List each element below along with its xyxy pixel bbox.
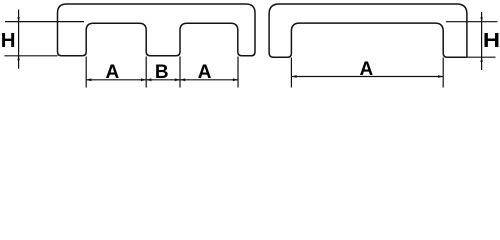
left extension line 1: [85, 57, 87, 88]
svg-text:H: H: [483, 28, 500, 51]
right extension line 1: [290, 58, 292, 88]
right H top arrowhead: [480, 17, 483, 22]
arrow right at ext2: [141, 78, 146, 81]
left H bottom arrowhead: [17, 56, 20, 61]
left H top arrowhead: [17, 17, 20, 22]
left extension line 4: [237, 57, 239, 88]
left view handle outline: [58, 4, 256, 56]
right A dimension line: [291, 76, 443, 78]
svg-text:A: A: [106, 62, 120, 83]
right H bottom arrowhead: [480, 57, 483, 62]
arrow right at ext4: [233, 78, 238, 81]
right H top reference line: [446, 21, 498, 23]
svg-text:A: A: [198, 62, 212, 83]
left H top reference line: [5, 21, 84, 23]
right H bottom reference line: [467, 56, 496, 58]
left extension line 2: [145, 57, 147, 88]
arrow left at ext3: [180, 78, 185, 81]
left H bottom reference line: [5, 55, 58, 57]
arrow right at right ext2: [438, 75, 443, 78]
left extension line 3: [179, 57, 181, 88]
arrow right at ext3: [175, 78, 180, 81]
svg-text:H: H: [1, 29, 16, 52]
arrow left at right ext1: [291, 75, 296, 78]
left H dimension line: [18, 10, 20, 69]
svg-text:B: B: [155, 62, 169, 83]
right H dimension line: [481, 12, 483, 70]
left A-B-A dimension line: [86, 79, 238, 81]
svg-text:A: A: [360, 59, 374, 80]
right extension line 2: [442, 58, 444, 88]
right H label: [483, 28, 500, 51]
arrow left at ext1: [86, 78, 91, 81]
arrow left at ext2: [146, 78, 151, 81]
right view handle outline: [269, 4, 467, 57]
